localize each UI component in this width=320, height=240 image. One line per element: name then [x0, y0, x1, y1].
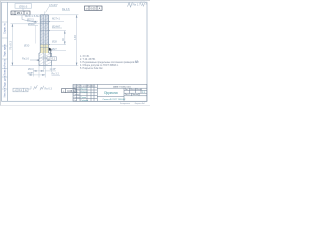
svg-text:140: 140: [73, 35, 77, 40]
svg-text:Справ. №: Справ. №: [4, 23, 7, 34]
svg-text:Формат А4: Формат А4: [135, 102, 146, 105]
svg-text:4. Общие допуски по ГОСТ 30893: 4. Общие допуски по ГОСТ 30893.1.: [80, 65, 119, 67]
svg-text:А: А: [99, 6, 101, 10]
svg-text:3. Неуказанные предельные откл: 3. Неуказанные предельные отклонения раз…: [80, 61, 139, 64]
svg-text:Взам.ин: Взам.ин: [4, 66, 7, 76]
svg-text:75±0.2: 75±0.2: [9, 41, 13, 50]
svg-text:Сидоров: Сидоров: [81, 99, 89, 102]
svg-text:АБВГ.715332.001: АБВГ.715332.001: [113, 85, 131, 88]
svg-text:Разраб.: Разраб.: [73, 89, 80, 91]
svg-text:Листов 1: Листов 1: [132, 94, 139, 96]
svg-text:Петров: Петров: [81, 91, 88, 93]
svg-text:M27×1: M27×1: [52, 17, 61, 21]
svg-text:Ø36.6: Ø36.6: [19, 4, 28, 8]
svg-text:Масса: Масса: [130, 89, 135, 91]
svg-text:Подп. дата: Подп. дата: [4, 75, 7, 88]
svg-text:Утв.: Утв.: [73, 100, 77, 102]
svg-text:Иванов: Иванов: [81, 89, 87, 91]
svg-text:Пров.: Пров.: [73, 91, 78, 93]
svg-text:Лист 1: Лист 1: [125, 94, 130, 96]
svg-text:Т.контр.: Т.контр.: [73, 94, 80, 96]
svg-text:M24×1.5-6H: M24×1.5-6H: [25, 14, 39, 18]
svg-text:Ø27: Ø27: [52, 48, 57, 51]
svg-text:Дата: Дата: [91, 86, 95, 88]
svg-text:Копировал: Копировал: [120, 103, 131, 105]
svg-text:Инв.№ п: Инв.№ п: [4, 87, 7, 97]
svg-text:Ra 6.3: Ra 6.3: [45, 88, 53, 91]
svg-text:Перв. прим.: Перв. прим.: [4, 43, 7, 57]
svg-text:1×45°: 1×45°: [50, 68, 57, 71]
svg-text:Серов: Серов: [81, 97, 87, 99]
svg-text:Лит.: Лит.: [125, 89, 129, 91]
svg-text:Ø0.1: Ø0.1: [17, 11, 23, 15]
svg-text:Ra1.6: Ra1.6: [22, 56, 29, 60]
svg-text:Пружина: Пружина: [104, 91, 118, 95]
svg-text:⌖: ⌖: [12, 11, 14, 15]
svg-text:Сталь 45 ГОСТ 1050-88: Сталь 45 ГОСТ 1050-88: [103, 98, 127, 101]
svg-text:Ø30: Ø30: [24, 43, 30, 47]
svg-text:5. Покрытие Хим.Окс.: 5. Покрытие Хим.Окс.: [80, 68, 104, 70]
svg-text:Ø16: Ø16: [28, 68, 33, 71]
svg-text:0.5×45°: 0.5×45°: [49, 4, 58, 7]
svg-text:Ø28: Ø28: [52, 41, 57, 44]
svg-text:1. ХХ 45.: 1. ХХ 45.: [80, 56, 90, 58]
svg-text:0.05: 0.05: [90, 6, 96, 10]
svg-text:Инв.№: Инв.№: [4, 59, 7, 67]
svg-text:⊥: ⊥: [14, 89, 16, 92]
svg-text:2. Т 40..45 НВ.: 2. Т 40..45 НВ.: [80, 59, 96, 61]
svg-text:Ø25*: Ø25*: [28, 72, 34, 75]
